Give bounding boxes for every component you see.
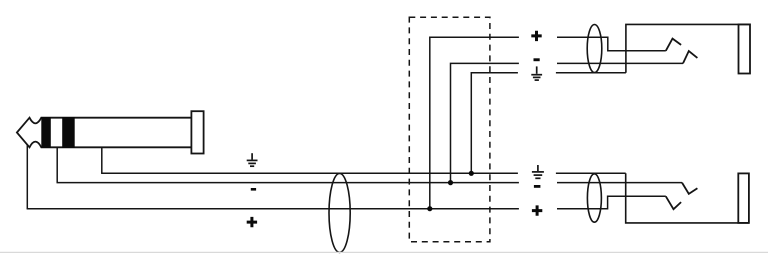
ground symbol (bottom jack)	[532, 165, 544, 178]
switch contact, bottom jack	[682, 183, 697, 194]
bottom rule	[0, 251, 768, 253]
ground symbol (cable shield, left)	[247, 153, 258, 166]
dashed junction box	[409, 17, 490, 242]
wire: gnd branch up to top jack	[471, 73, 518, 174]
tip contact, bottom jack	[666, 196, 681, 209]
cable oval (bottom jack)	[587, 174, 601, 222]
wire: + into top jack tip	[557, 37, 666, 51]
junction dot: + branch	[427, 206, 432, 211]
wire: + bus (tip to junction area)	[27, 208, 519, 210]
top jack socket body J2	[626, 24, 750, 73]
label + (left, tip wire)	[247, 217, 257, 227]
bottom jack socket body J3	[626, 173, 749, 223]
wire: gnd into bottom jack sleeve	[556, 172, 626, 174]
label + (top jack)	[531, 31, 541, 41]
label - (top jack)	[534, 58, 540, 61]
cable oval (top jack)	[587, 25, 602, 73]
junction dot: gnd branch	[469, 171, 474, 176]
wire: - branch up to top jack	[451, 63, 519, 182]
switch contact, top jack	[683, 51, 697, 63]
TRS plug P1 second band	[62, 117, 74, 148]
TRS plug P1 tip ring band	[41, 117, 51, 148]
wire: + branch up to top jack	[430, 37, 519, 209]
TRS plug P1 body	[17, 118, 192, 148]
wire: - into bottom jack switch	[557, 182, 682, 184]
cable jacket oval (left)	[329, 173, 350, 252]
wire: tip drop	[26, 144, 28, 209]
wire: - bus (ring to junction area)	[57, 182, 519, 184]
label + (bottom jack)	[532, 205, 542, 215]
wire: sleeve drop	[101, 147, 103, 173]
wire: + into bottom jack tip	[557, 196, 666, 208]
tip contact, top jack	[666, 39, 681, 51]
wire: gnd bus (sleeve to junction area)	[101, 172, 518, 174]
wire: gnd into top jack sleeve	[556, 72, 626, 74]
TRS plug P1 flange	[191, 111, 203, 153]
wire: - into top jack switch	[557, 62, 683, 64]
wire: ring drop	[56, 147, 58, 182]
ground symbol (top jack)	[531, 66, 542, 80]
label - (bottom jack)	[534, 185, 541, 188]
junction dot: - branch	[448, 180, 453, 185]
label - (left, ring wire)	[251, 188, 256, 191]
